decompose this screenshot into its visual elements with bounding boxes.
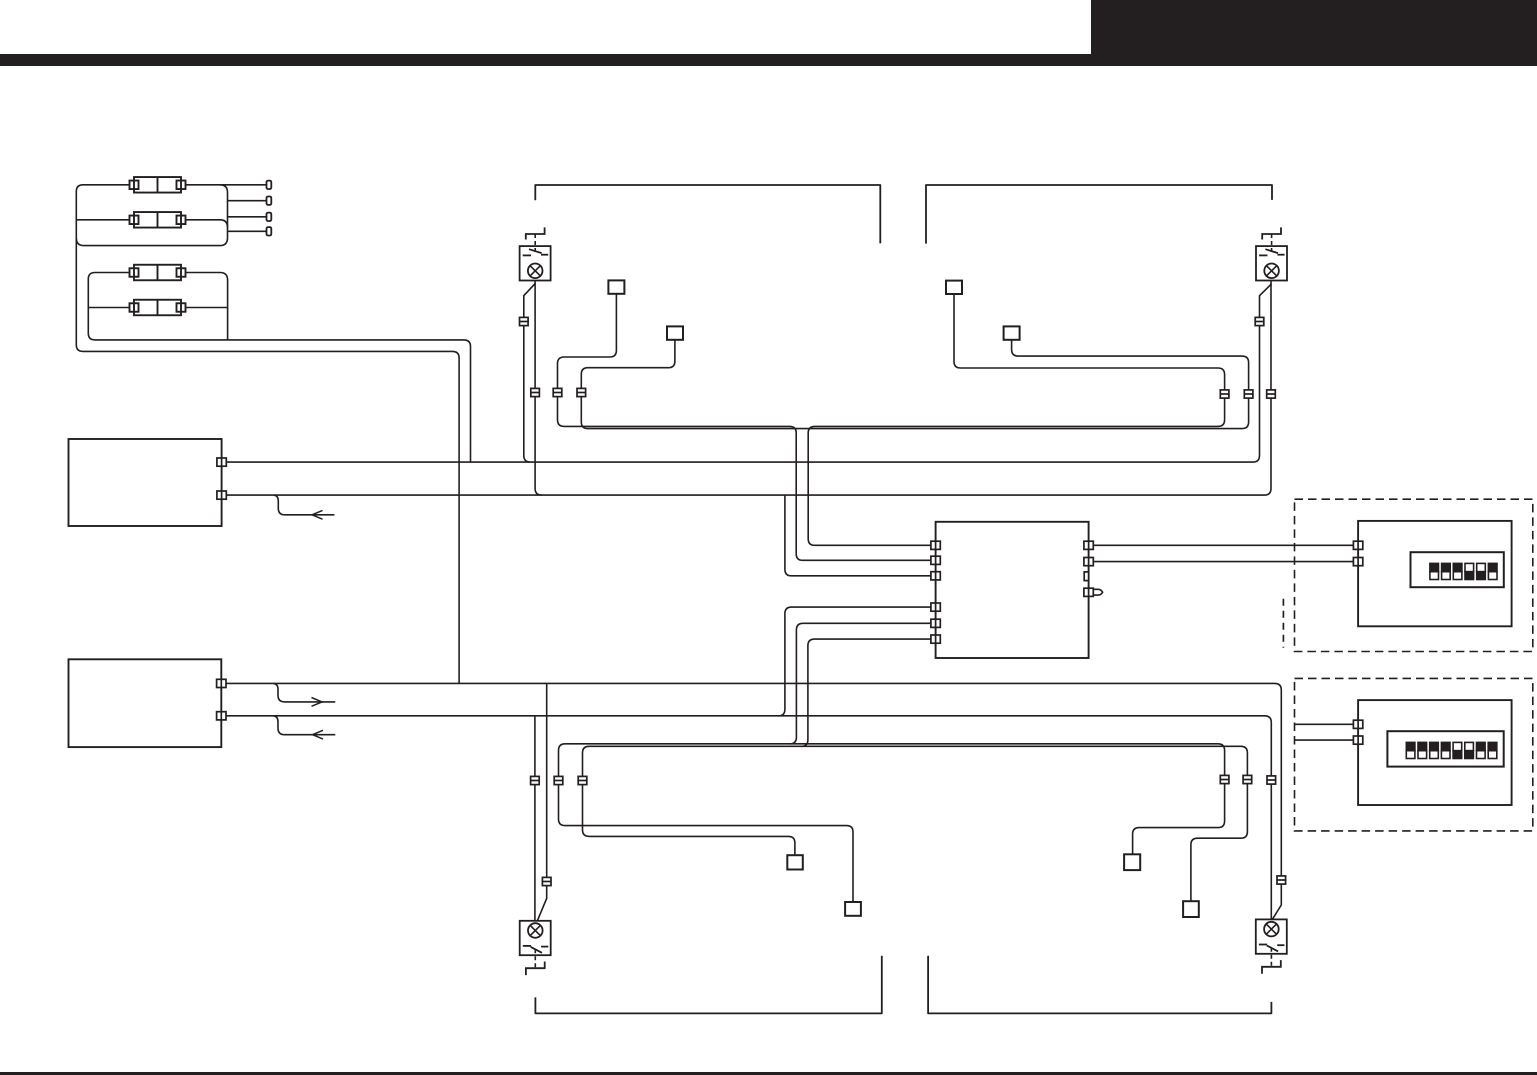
fuse F4 (130, 300, 186, 316)
pin L2 central box (931, 556, 940, 564)
connector lower bus1 left (554, 776, 563, 784)
wire lower bus 2 squares (583, 746, 1248, 901)
wire box1 out B branch to pin3 (785, 495, 931, 576)
pin DIP1 in2 (1353, 558, 1362, 566)
arrow left on box2 stub2 (313, 730, 324, 739)
connector TL branch (520, 317, 529, 325)
square S8 (1183, 901, 1199, 917)
connector BR main (1267, 776, 1276, 784)
bracket zone top-left (535, 185, 880, 243)
connector BR branch (1277, 876, 1286, 884)
square S4 (1004, 326, 1020, 339)
pin L5 central box (931, 619, 940, 627)
wire box2 out B bus (226, 716, 1271, 920)
connector TR branch (1255, 317, 1264, 325)
square S5 (787, 855, 803, 869)
connector TL main (531, 388, 540, 396)
fuse F2 (130, 212, 186, 228)
square S2 (667, 326, 683, 339)
dashed enclosure DIP unit 1 (1295, 499, 1533, 651)
box control unit 2 (69, 659, 222, 747)
wire box1 out B to right lamp main (226, 281, 1271, 496)
wire R1 to DIP unit 1 (1093, 544, 1354, 546)
connector TR main (1267, 390, 1276, 398)
DIP switch block 1 (1411, 552, 1504, 587)
pin box1 out B (217, 491, 226, 499)
pin R1 central box (1084, 541, 1093, 549)
wire terminal 4 branch (228, 230, 267, 232)
wire box1 continuation stub (274, 495, 335, 515)
wire square S2 to square S4 (581, 340, 1248, 429)
pin R4 central box (1084, 588, 1093, 596)
terminal T1 (267, 181, 272, 189)
pin box2 out A (217, 679, 226, 687)
square S6 (845, 902, 861, 916)
dashed enclosure DIP unit 2 (1295, 678, 1533, 831)
lamp bottom-right with switch (1256, 919, 1287, 973)
connector BL branch (542, 877, 551, 885)
wire TL lamp main (535, 281, 542, 496)
pin box2 out B (217, 712, 226, 720)
connector lower bus1 right (1220, 775, 1229, 783)
arrow right on box2 stub (312, 698, 323, 707)
lamp top-left with switch (520, 227, 551, 280)
connector lower bus2 right (1243, 775, 1252, 783)
wire BL lamp branch drop (537, 683, 547, 921)
pin DIP2 in2 (1353, 736, 1362, 744)
box DIP unit 2 (1358, 700, 1512, 805)
wire box2 stub left-arrow (274, 716, 336, 735)
box central control module (936, 522, 1089, 658)
pin R2 central box (1084, 558, 1093, 566)
wire square S3 to pin1 (808, 294, 1224, 546)
dashed continuation line (1282, 599, 1284, 648)
pin L1 central box (931, 541, 940, 549)
wire fuse F4 output (185, 307, 228, 309)
footer rule (0, 1072, 1537, 1075)
wire TL lamp branch (524, 284, 535, 463)
box DIP unit 1 (1358, 521, 1512, 626)
bracket zone bottom-left (535, 956, 881, 1014)
pigtail connector on pin R4 (1093, 589, 1102, 595)
arrow left on box1 stub (312, 510, 323, 519)
pin box1 out A (217, 458, 226, 466)
wire fuse F4 feed (88, 307, 130, 309)
wire fuse F3 output + right tie (185, 273, 228, 340)
wire pin5 to lower bus 1 (790, 623, 931, 744)
terminal T2 (267, 197, 272, 205)
connector wire D (577, 388, 586, 396)
square S1 (608, 280, 624, 293)
fuse F1 (130, 177, 186, 193)
wire to DIP unit 2 pin1 (1295, 723, 1354, 725)
terminal T3 (267, 213, 272, 221)
wire fuse F1 output (185, 184, 267, 186)
connector BL main (531, 776, 540, 784)
bracket zone bottom-right (928, 956, 1271, 1014)
wire fuse F3 feed + left tie (88, 273, 470, 463)
wire box1 out A to right lamp branch (226, 284, 1271, 462)
lamp top-right with switch (1256, 227, 1287, 280)
connector wire C (553, 388, 562, 396)
wire fuse F2 output (185, 220, 228, 228)
pin DIP1 in1 (1353, 541, 1362, 549)
wire terminal bus (76, 185, 227, 246)
pin L3 central box (931, 572, 940, 580)
wire pin4 to bus B (778, 607, 931, 716)
wire BL lamp main drop (534, 716, 536, 921)
wire terminal 3 branch (228, 216, 267, 218)
terminal T4 (267, 227, 272, 235)
wire fuse F2 feed branch (76, 219, 130, 221)
pin R3 central box (1084, 572, 1088, 581)
square S3 (946, 281, 962, 294)
lamp bottom-left with switch (520, 921, 551, 975)
wire pin6 to lower bus 2 (801, 639, 931, 746)
wire box2 out A bus (226, 683, 1281, 919)
connector vertical A (1220, 390, 1229, 398)
fuse F3 (130, 265, 186, 281)
wire fuse F1 feed trunk (76, 185, 459, 684)
wire square S1 to pin2 (558, 294, 931, 561)
wire to DIP unit 2 pin2 (1295, 739, 1354, 741)
header bar (0, 54, 1537, 66)
header block top-right (1091, 0, 1537, 55)
connector vertical B (1244, 390, 1253, 398)
wire R2 to DIP unit 1 (1093, 561, 1354, 563)
wire lower bus 1 squares (559, 744, 1225, 902)
DIP switch block 2 (1387, 731, 1503, 766)
box control unit 1 (69, 439, 222, 526)
wire terminal 2 branch (228, 200, 267, 202)
bracket zone top-right (926, 185, 1272, 244)
square S7 (1124, 854, 1140, 870)
connector lower bus2 left (578, 776, 587, 784)
pin L6 central box (931, 635, 940, 643)
wire box2 stub right-arrow (274, 683, 336, 702)
pin L4 central box (931, 603, 940, 611)
pin DIP2 in1 (1353, 720, 1362, 728)
